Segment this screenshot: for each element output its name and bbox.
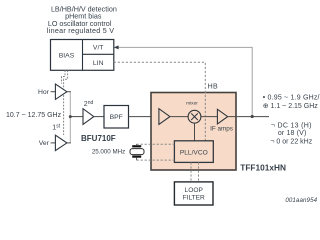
wire V/T control from output junction: [117, 47, 253, 116]
wire chip amp to mixer: [170, 116, 188, 118]
svg-text:Hor: Hor: [38, 89, 50, 96]
bias block U-BIAS (BIAS / V/T / LIN): [51, 40, 114, 71]
svg-text:TFF101xHN: TFF101xHN: [240, 162, 286, 172]
IC TFF101xHN body: [151, 93, 236, 171]
node: output junction dot: [251, 115, 254, 118]
wire Hor input stub: [51, 91, 56, 93]
svg-text:BPF: BPF: [110, 114, 123, 121]
wire Ver input stub: [51, 142, 56, 144]
svg-text:IF amps: IF amps: [210, 126, 233, 133]
amplifier chip input amp: [159, 109, 170, 125]
svg-text:001aan954: 001aan954: [285, 197, 317, 204]
amplifier IF amps: [217, 109, 227, 124]
svg-text:¬ DC 13 (H): ¬ DC 13 (H): [271, 123, 312, 130]
crystal Y1: [130, 144, 144, 160]
amplifier Ver (1st stage): [55, 135, 67, 150]
loop filter block: [174, 182, 213, 205]
dashed wire LIN to HB / PLL: [114, 62, 206, 140]
dashed wire crystal bottom to PLL/VCO: [137, 159, 175, 161]
wire mixer LO from PLL/VCO: [194, 123, 196, 141]
svg-text:2nd: 2nd: [84, 100, 94, 108]
svg-text:HB: HB: [208, 84, 218, 91]
svg-text:10.7 ~ 12.75 GHz: 10.7 ~ 12.75 GHz: [6, 112, 62, 119]
svg-text:LIN: LIN: [93, 60, 104, 67]
svg-text:Ver: Ver: [39, 140, 50, 147]
amplifier Hor (1st stage): [55, 84, 67, 99]
svg-text:V/T: V/T: [93, 44, 104, 51]
svg-text:¬ 0 or 22 kHz: ¬ 0 or 22 kHz: [270, 138, 312, 145]
svg-text:BFU710F: BFU710F: [81, 134, 116, 143]
svg-text:linear regulated 5 V: linear regulated 5 V: [47, 26, 114, 35]
wire BPF to chip input amp: [129, 116, 159, 118]
wire joining Hor/Ver amp outputs: [69, 92, 71, 143]
dashed bias wire to Hor amp: [62, 70, 66, 83]
svg-text:PLL/VCO: PLL/VCO: [180, 149, 208, 156]
wire mixer to IF amps: [201, 116, 218, 118]
dashed bias wire to Ver amp: [64, 70, 68, 135]
dashed wire PLL/VCO to loop filter (left): [190, 162, 192, 182]
dashed wire crystal top to PLL/VCO: [137, 143, 175, 145]
wire 2nd amp to BPF: [94, 116, 104, 118]
arrowhead into V/T: [114, 45, 119, 49]
svg-text:FILTER: FILTER: [183, 194, 205, 201]
control voltage labels: [270, 123, 312, 146]
svg-text:LOOP: LOOP: [185, 187, 204, 194]
svg-text:25.000 MHz: 25.000 MHz: [92, 149, 125, 156]
svg-text:1st: 1st: [52, 124, 60, 132]
wire IF output: [228, 116, 269, 118]
amplifier 2nd stage (BFU710F): [83, 109, 94, 125]
svg-text:• 0.95 ~ 1.9 GHz/: • 0.95 ~ 1.9 GHz/: [263, 94, 320, 101]
node: amp join junction dot: [69, 115, 72, 118]
svg-text:mixer: mixer: [186, 101, 198, 107]
svg-text:BIAS: BIAS: [59, 52, 75, 59]
dashed wire PLL/VCO to loop filter (right): [198, 162, 200, 182]
PLL/VCO block: [174, 141, 213, 163]
annotation text: BIAS block functions: [47, 4, 117, 35]
wire junction to 2nd amp: [70, 116, 83, 118]
mixer X1: [188, 110, 201, 123]
svg-text:or 18 (V): or 18 (V): [278, 130, 307, 137]
filter BPF: [104, 106, 129, 129]
svg-text:⊕ 1.1 ~ 2.15 GHz: ⊕ 1.1 ~ 2.15 GHz: [263, 103, 319, 110]
output frequency labels: [263, 94, 320, 110]
